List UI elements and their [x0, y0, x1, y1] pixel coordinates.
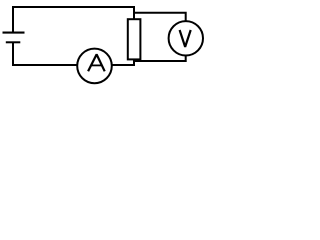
resistor R (rectangle)	[128, 19, 141, 59]
ammeter letter A	[88, 54, 105, 71]
battery cell: short negative plate	[6, 41, 20, 43]
voltmeter V (circle)	[169, 21, 203, 55]
battery cell: long positive plate	[3, 32, 25, 34]
wire voltmeter bottom branch	[134, 55, 186, 61]
voltmeter letter V	[180, 30, 191, 47]
wire top loop: battery positive up, across top, down to resistor top	[13, 7, 134, 33]
wire bottom loop: battery negative down, across bottom, up to resistor bottom	[13, 42, 134, 65]
ammeter A (circle)	[77, 49, 112, 84]
wire voltmeter top branch	[134, 13, 186, 22]
